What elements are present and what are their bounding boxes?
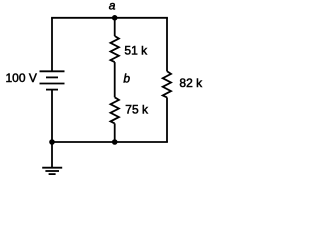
wire middle lower (R2 to bottom wire) (114, 123, 116, 142)
ground bar middle (45, 170, 59, 172)
wire ground stem (51, 142, 53, 168)
battery plate short (46, 76, 58, 78)
wire bottom (51, 141, 168, 143)
ground bar short (49, 173, 56, 175)
svg-text:a: a (109, 0, 116, 13)
svg-text:b: b (123, 71, 130, 85)
svg-text:75 k: 75 k (125, 102, 149, 116)
wire top from node a to corners (51, 17, 168, 19)
svg-text:51 k: 51 k (124, 44, 148, 58)
battery plate long (40, 83, 65, 85)
wire middle upper (node a to R1) (114, 18, 116, 36)
wire right lower (R3 to bottom wire) (166, 97, 168, 142)
resistor R1 51 k zigzag (111, 36, 119, 62)
junction dot bottom middle (112, 139, 118, 145)
wire middle node b (R1 to R2) (114, 62, 116, 97)
wire left lower (battery - to bottom wire) (51, 90, 53, 142)
ground bar long (42, 167, 62, 169)
battery VS 100 V plate long top (40, 70, 65, 72)
resistor R2 75 k zigzag (111, 97, 119, 123)
battery plate short bottom (46, 89, 58, 91)
svg-text:100 V: 100 V (6, 71, 37, 85)
svg-text:82 k: 82 k (179, 76, 203, 90)
wire right upper (top corner to R3) (166, 18, 168, 72)
resistor R3 82 k zigzag (163, 71, 171, 97)
node a junction dot (112, 15, 118, 21)
wire left upper (top corner to battery +) (51, 18, 53, 72)
junction dot bottom left (49, 139, 55, 145)
